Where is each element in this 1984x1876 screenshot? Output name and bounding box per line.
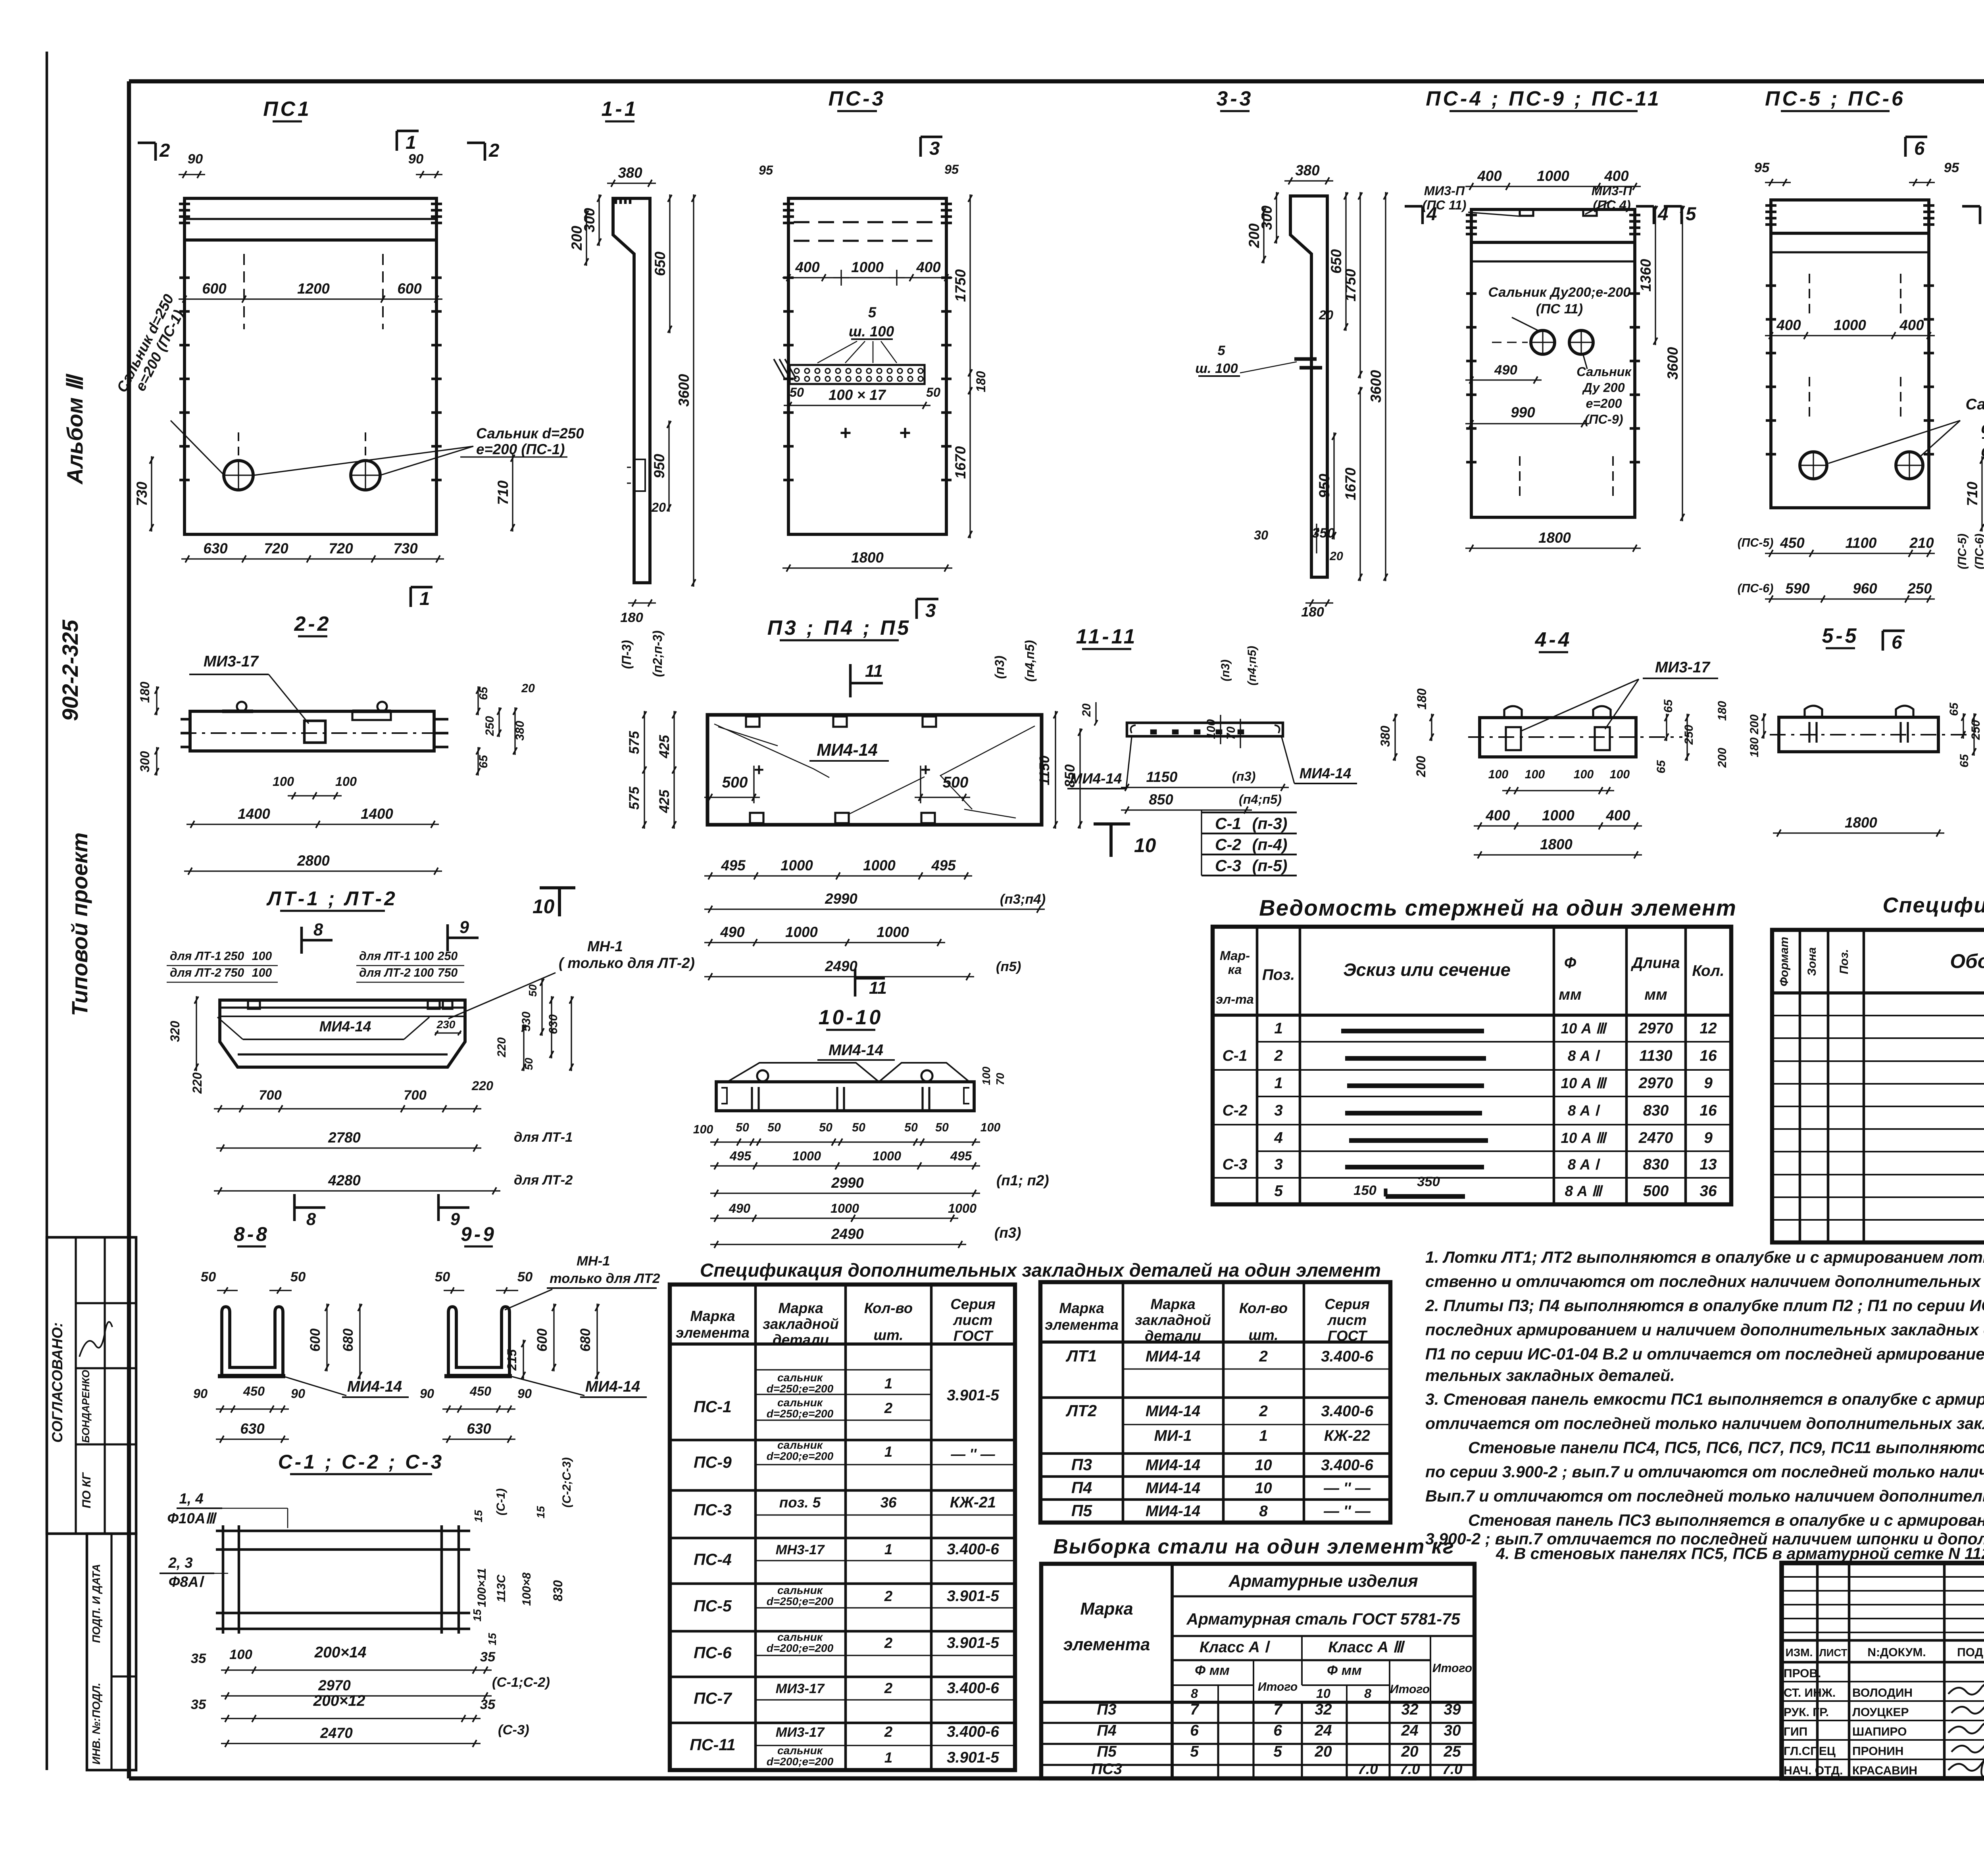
svg-text:400: 400 — [1477, 168, 1502, 184]
svg-text:(ПС-6): (ПС-6) — [1738, 582, 1774, 595]
svg-text:400: 400 — [1604, 168, 1629, 184]
svg-text:200×12: 200×12 — [313, 1692, 365, 1709]
svg-text:1: 1 — [884, 1541, 892, 1557]
svg-text:6: 6 — [1273, 1722, 1282, 1739]
svg-text:100×11: 100×11 — [475, 1568, 488, 1607]
svg-text:24: 24 — [1401, 1722, 1418, 1739]
svg-text:450: 450 — [1780, 535, 1805, 551]
svg-text:НАЧ. ОТД.: НАЧ. ОТД. — [1784, 1764, 1843, 1777]
svg-text:КРАСАВИН: КРАСАВИН — [1852, 1764, 1917, 1777]
svg-text:по серии 3.900-2 ; вып.7 и: по серии 3.900-2 ; вып.7 и отличаются от… — [1425, 1463, 1984, 1481]
svg-text:8 А Ⅰ: 8 А Ⅰ — [1568, 1102, 1600, 1119]
svg-text:1000: 1000 — [1542, 807, 1575, 824]
svg-text:сальник: сальник — [777, 1371, 823, 1384]
svg-text:990: 990 — [1511, 404, 1535, 421]
svg-text:1: 1 — [419, 588, 430, 609]
svg-text:10: 10 — [1255, 1457, 1272, 1474]
svg-text:16: 16 — [1699, 1047, 1717, 1064]
svg-text:490: 490 — [729, 1201, 750, 1215]
svg-text:мм: мм — [1644, 986, 1667, 1003]
svg-text:4-4: 4-4 — [1535, 628, 1572, 651]
svg-text:5: 5 — [868, 304, 877, 321]
svg-text:6: 6 — [1190, 1722, 1199, 1739]
svg-text:для ЛТ-2: для ЛТ-2 — [359, 966, 411, 979]
svg-text:2: 2 — [884, 1724, 893, 1740]
svg-text:1: 1 — [884, 1749, 892, 1766]
svg-text:Кол-во: Кол-во — [864, 1300, 913, 1316]
svg-text:РУК. ГР.: РУК. ГР. — [1784, 1706, 1829, 1719]
svg-text:ПС-5 ; ПС-6: ПС-5 ; ПС-6 — [1765, 87, 1905, 110]
svg-text:Марка: Марка — [1150, 1296, 1195, 1312]
svg-text:1100: 1100 — [1846, 535, 1877, 551]
svg-text:П4: П4 — [1097, 1722, 1117, 1739]
svg-text:элемента: элемента — [1063, 1635, 1150, 1654]
svg-text:сальник: сальник — [777, 1631, 823, 1643]
svg-text:650: 650 — [652, 252, 668, 276]
svg-text:ИНВ. №:ПОДЛ.: ИНВ. №:ПОДЛ. — [90, 1683, 102, 1765]
svg-text:ЛИСТ: ЛИСТ — [1819, 1647, 1848, 1659]
svg-text:50: 50 — [790, 385, 804, 399]
svg-text:ПОДП. И ДАТА: ПОДП. И ДАТА — [90, 1564, 102, 1643]
svg-text:ГОСТ: ГОСТ — [1328, 1328, 1368, 1344]
svg-text:СТ. ИНЖ.: СТ. ИНЖ. — [1784, 1686, 1836, 1699]
svg-text:элемента: элемента — [1045, 1317, 1119, 1333]
svg-text:последних армированием и на: последних армированием и наличием дополн… — [1425, 1321, 1984, 1339]
svg-text:для ЛТ-1: для ЛТ-1 — [170, 950, 221, 963]
svg-text:(С-1;С-2): (С-1;С-2) — [492, 1675, 550, 1690]
svg-text:ЛТ-1 ; ЛТ-2: ЛТ-1 ; ЛТ-2 — [266, 887, 397, 910]
svg-text:3: 3 — [1274, 1102, 1283, 1119]
svg-text:220: 220 — [495, 1037, 508, 1058]
svg-text:Кол.: Кол. — [1692, 962, 1724, 979]
svg-text:950: 950 — [651, 454, 667, 478]
svg-text:МИ4-14: МИ4-14 — [1070, 770, 1122, 787]
svg-text:20: 20 — [1319, 308, 1333, 322]
svg-text:8 А Ⅰ: 8 А Ⅰ — [1568, 1156, 1600, 1173]
svg-text:1800: 1800 — [1540, 836, 1573, 853]
svg-text:Обозначение: Обозначение — [1950, 950, 1984, 972]
svg-text:50: 50 — [852, 1121, 865, 1134]
svg-text:е=200 (ПС-1): е=200 (ПС-1) — [476, 441, 565, 457]
svg-text:1000: 1000 — [792, 1149, 821, 1163]
svg-text:113С: 113С — [495, 1574, 508, 1602]
svg-text:2990: 2990 — [831, 1175, 864, 1191]
svg-text:С-1: С-1 — [1223, 1047, 1248, 1064]
svg-text:850: 850 — [1149, 791, 1173, 808]
svg-text:1000: 1000 — [781, 857, 813, 874]
svg-text:сальник: сальник — [777, 1396, 823, 1409]
svg-text:200: 200 — [1414, 756, 1428, 778]
svg-text:1750: 1750 — [952, 269, 969, 302]
svg-text:2970: 2970 — [1638, 1075, 1673, 1092]
svg-text:+: + — [839, 422, 851, 444]
svg-text:только для ЛТ2: только для ЛТ2 — [550, 1271, 660, 1286]
svg-text:180: 180 — [1415, 688, 1429, 710]
svg-text:20: 20 — [651, 500, 666, 515]
svg-text:3.400-6: 3.400-6 — [1321, 1348, 1373, 1365]
svg-text:7.0: 7.0 — [1400, 1761, 1420, 1777]
svg-text:4: 4 — [1274, 1129, 1283, 1146]
svg-text:7.0: 7.0 — [1357, 1761, 1378, 1777]
svg-text:Типовой проект: Типовой проект — [67, 832, 92, 1016]
svg-text:9-9: 9-9 — [461, 1223, 496, 1245]
svg-text:ка: ка — [1228, 962, 1242, 977]
svg-text:закладной: закладной — [763, 1316, 839, 1332]
svg-text:100 × 17: 100 × 17 — [829, 387, 886, 403]
svg-text:630: 630 — [467, 1421, 491, 1437]
svg-text:П3: П3 — [1097, 1701, 1117, 1718]
svg-text:50: 50 — [736, 1121, 749, 1134]
svg-text:Ф мм: Ф мм — [1195, 1663, 1230, 1678]
svg-text:2490: 2490 — [831, 1226, 864, 1242]
svg-text:ЛТ2: ЛТ2 — [1065, 1402, 1097, 1420]
svg-text:90: 90 — [291, 1386, 305, 1401]
svg-text:(С-2;С-3): (С-2;С-3) — [560, 1457, 573, 1508]
svg-text:3.901-5: 3.901-5 — [947, 1634, 1000, 1651]
svg-text:2: 2 — [1259, 1403, 1268, 1420]
svg-text:50: 50 — [527, 984, 539, 997]
svg-text:100: 100 — [414, 966, 434, 979]
svg-text:d=200;е=200: d=200;е=200 — [767, 1450, 834, 1462]
svg-text:3600: 3600 — [1368, 370, 1384, 403]
svg-text:90: 90 — [517, 1386, 532, 1401]
svg-text:1800: 1800 — [1845, 814, 1877, 831]
svg-text:10-10: 10-10 — [819, 1006, 883, 1029]
svg-text:1000: 1000 — [877, 924, 909, 940]
svg-text:МИ4-14: МИ4-14 — [829, 1042, 883, 1059]
svg-text:50: 50 — [435, 1269, 450, 1285]
svg-text:500: 500 — [943, 774, 969, 791]
svg-text:(ПС 11): (ПС 11) — [1536, 301, 1583, 317]
svg-text:20: 20 — [1401, 1743, 1419, 1760]
svg-text:3.400-6: 3.400-6 — [1321, 1403, 1373, 1420]
svg-text:для ЛТ-2: для ЛТ-2 — [170, 966, 221, 979]
svg-text:30: 30 — [1444, 1722, 1461, 1739]
svg-text:1800: 1800 — [1538, 530, 1571, 546]
svg-text:эл-та: эл-та — [1216, 992, 1254, 1006]
svg-text:65: 65 — [1958, 754, 1971, 768]
svg-text:8: 8 — [1364, 1686, 1371, 1701]
svg-text:МИ4-14: МИ4-14 — [1146, 1457, 1200, 1474]
svg-text:100: 100 — [273, 774, 294, 789]
svg-text:3: 3 — [1274, 1156, 1283, 1173]
svg-text:ПС-4: ПС-4 — [694, 1550, 732, 1569]
svg-text:Ф8АⅠ: Ф8АⅠ — [169, 1574, 205, 1590]
svg-text:320: 320 — [168, 1021, 182, 1042]
svg-text:е=200: е=200 — [1586, 396, 1622, 411]
svg-text:180: 180 — [620, 610, 643, 625]
svg-text:2490: 2490 — [825, 958, 857, 974]
svg-text:ПОДП.: ПОДП. — [1957, 1646, 1984, 1659]
svg-text:13: 13 — [1699, 1156, 1717, 1173]
svg-text:3.400-6: 3.400-6 — [947, 1723, 999, 1740]
svg-text:830: 830 — [1643, 1102, 1669, 1119]
svg-text:35: 35 — [191, 1651, 206, 1666]
svg-text:7.0: 7.0 — [1442, 1761, 1463, 1777]
svg-text:2: 2 — [884, 1588, 893, 1604]
svg-text:100: 100 — [693, 1123, 713, 1136]
svg-text:2: 2 — [1274, 1047, 1283, 1064]
svg-text:730: 730 — [393, 540, 418, 557]
svg-text:(п3): (п3) — [992, 656, 1007, 679]
svg-text:Арматурная сталь ГОСТ 5781-75: Арматурная сталь ГОСТ 5781-75 — [1186, 1610, 1461, 1628]
svg-text:Класс А Ⅰ: Класс А Ⅰ — [1200, 1639, 1271, 1656]
svg-text:32: 32 — [1401, 1701, 1419, 1718]
svg-text:90: 90 — [188, 152, 203, 167]
svg-text:90: 90 — [408, 152, 423, 167]
svg-text:1-1: 1-1 — [602, 97, 638, 120]
svg-text:50: 50 — [201, 1269, 216, 1285]
svg-text:d=250;е=200: d=250;е=200 — [767, 1407, 834, 1420]
svg-text:400: 400 — [1605, 807, 1630, 824]
svg-text:100×8: 100×8 — [520, 1573, 533, 1606]
svg-text:d=200;е=200: d=200;е=200 — [767, 1642, 834, 1654]
svg-text:— '' —: — '' — — [1323, 1503, 1371, 1520]
svg-text:Итого: Итого — [1390, 1683, 1430, 1696]
svg-text:d=250;е=200: d=250;е=200 — [767, 1595, 834, 1607]
svg-text:Ф10АⅢ: Ф10АⅢ — [167, 1510, 217, 1527]
svg-text:590: 590 — [1785, 580, 1810, 597]
svg-text:БОНДАРЕНКО: БОНДАРЕНКО — [80, 1370, 92, 1443]
svg-text:ШАПИРО: ШАПИРО — [1852, 1725, 1907, 1738]
svg-text:Сальник Ду200;е-200: Сальник Ду200;е-200 — [1488, 285, 1630, 300]
svg-text:830: 830 — [1643, 1156, 1669, 1173]
svg-text:630: 630 — [547, 1014, 560, 1034]
svg-text:9: 9 — [1704, 1075, 1713, 1092]
svg-text:Ф мм: Ф мм — [1327, 1663, 1362, 1678]
svg-text:700: 700 — [259, 1088, 282, 1103]
svg-text:600: 600 — [308, 1328, 323, 1352]
svg-text:450: 450 — [243, 1384, 265, 1398]
svg-text:630: 630 — [203, 540, 228, 557]
svg-text:1400: 1400 — [361, 806, 393, 822]
svg-text:С-2: С-2 — [1223, 1102, 1248, 1119]
svg-text:960: 960 — [1853, 580, 1877, 597]
svg-text:2800: 2800 — [297, 853, 330, 869]
svg-text:95: 95 — [944, 162, 959, 177]
svg-text:Стеновые панели ПС4, ПС5, ПС: Стеновые панели ПС4, ПС5, ПС6, ПС7, ПС9,… — [1468, 1438, 1984, 1457]
svg-text:1: 1 — [884, 1375, 892, 1392]
svg-text:8 А Ⅲ: 8 А Ⅲ — [1565, 1183, 1603, 1199]
svg-text:380: 380 — [1295, 162, 1320, 179]
svg-text:(п3): (п3) — [1219, 660, 1232, 682]
svg-text:Сальники е=200: Сальники е=200 — [1965, 396, 1984, 413]
svg-text:— '' —: — '' — — [1323, 1480, 1371, 1497]
svg-text:100: 100 — [980, 1066, 992, 1085]
svg-text:ПС-6: ПС-6 — [694, 1644, 732, 1662]
svg-text:С-2: С-2 — [1215, 835, 1241, 854]
svg-text:КЖ-21: КЖ-21 — [950, 1494, 996, 1511]
svg-text:ПС-9: ПС-9 — [694, 1453, 732, 1471]
svg-text:250: 250 — [1682, 725, 1696, 745]
svg-text:2: 2 — [884, 1635, 893, 1651]
svg-text:С-3: С-3 — [1215, 856, 1241, 875]
svg-text:400: 400 — [1899, 317, 1924, 333]
svg-text:элемента: элемента — [676, 1325, 750, 1341]
svg-text:МИ4-14: МИ4-14 — [1146, 1480, 1200, 1497]
svg-text:250: 250 — [1907, 580, 1932, 597]
svg-text:100: 100 — [335, 774, 357, 789]
svg-text:ш. 100: ш. 100 — [1195, 361, 1238, 376]
svg-text:200×14: 200×14 — [314, 1644, 367, 1661]
svg-text:+: + — [920, 760, 930, 780]
svg-text:Альбом Ⅲ: Альбом Ⅲ — [62, 373, 87, 485]
svg-text:680: 680 — [340, 1328, 356, 1352]
svg-text:(С-1): (С-1) — [494, 1488, 508, 1515]
svg-text:3. Стеновая панель емкости: 3. Стеновая панель емкости ПС1 выполняет… — [1425, 1390, 1984, 1408]
svg-text:поз. 5: поз. 5 — [779, 1494, 821, 1511]
svg-text:3.400-6: 3.400-6 — [947, 1541, 999, 1558]
svg-text:МН-1: МН-1 — [577, 1254, 610, 1269]
svg-text:65: 65 — [477, 686, 490, 700]
svg-text:— '' —: — '' — — [950, 1446, 996, 1462]
svg-text:495: 495 — [950, 1149, 972, 1163]
svg-text:Спецификация марок арматурны: Спецификация марок арматурных изделий — [1883, 893, 1984, 917]
svg-text:1000: 1000 — [863, 857, 896, 874]
svg-text:2470: 2470 — [320, 1725, 353, 1741]
svg-text:5: 5 — [1274, 1183, 1283, 1200]
svg-text:710: 710 — [1964, 482, 1980, 506]
svg-text:100: 100 — [252, 966, 272, 979]
svg-text:Формат: Формат — [1778, 937, 1791, 986]
svg-text:10 А Ⅲ: 10 А Ⅲ — [1561, 1075, 1607, 1091]
svg-text:2: 2 — [884, 1680, 893, 1696]
svg-text:5-5: 5-5 — [1822, 624, 1859, 647]
svg-text:24: 24 — [1314, 1722, 1332, 1739]
svg-text:575: 575 — [627, 786, 642, 810]
svg-text:1400: 1400 — [238, 806, 270, 822]
svg-text:Марка: Марка — [778, 1300, 823, 1316]
svg-text:12: 12 — [1699, 1020, 1717, 1037]
svg-text:680: 680 — [578, 1328, 593, 1352]
svg-text:(ПС-5): (ПС-5) — [1956, 534, 1969, 569]
svg-text:4280: 4280 — [328, 1172, 361, 1189]
svg-text:КЖ-22: КЖ-22 — [1324, 1427, 1371, 1444]
svg-text:10: 10 — [1255, 1480, 1272, 1497]
svg-text:2: 2 — [488, 140, 499, 161]
svg-text:39: 39 — [1444, 1701, 1461, 1718]
svg-text:2780: 2780 — [328, 1129, 361, 1146]
svg-text:3600: 3600 — [1665, 347, 1681, 380]
svg-text:6: 6 — [1914, 138, 1925, 159]
svg-text:П4: П4 — [1071, 1479, 1092, 1497]
svg-text:ПС-5: ПС-5 — [694, 1597, 732, 1615]
svg-text:4. В стеновых панелях ПС5,: 4. В стеновых панелях ПС5, ПСБ в арматур… — [1496, 1544, 1984, 1563]
svg-text:Вып.7 и отличаются от посл: Вып.7 и отличаются от последней только н… — [1425, 1487, 1984, 1505]
svg-text:600: 600 — [202, 280, 227, 297]
svg-text:20: 20 — [1329, 550, 1343, 563]
svg-text:3-3: 3-3 — [1217, 87, 1253, 110]
svg-text:5: 5 — [1273, 1743, 1282, 1760]
svg-text:Эскиз или сечение: Эскиз или сечение — [1343, 960, 1511, 980]
svg-text:65: 65 — [1947, 702, 1961, 716]
svg-text:Сальник d=250: Сальник d=250 — [476, 425, 584, 442]
svg-text:65: 65 — [1655, 760, 1668, 774]
svg-text:(п4,п5): (п4,п5) — [1023, 640, 1037, 682]
svg-text:ПС-11: ПС-11 — [690, 1736, 735, 1754]
svg-text:180: 180 — [138, 682, 152, 703]
svg-text:95: 95 — [1754, 160, 1770, 175]
svg-text:МИ4-14: МИ4-14 — [585, 1378, 640, 1395]
svg-text:700: 700 — [404, 1088, 427, 1103]
svg-text:1750: 1750 — [1342, 269, 1359, 301]
svg-text:100: 100 — [1205, 719, 1218, 739]
svg-text:250: 250 — [483, 716, 496, 736]
svg-text:d=250 (ПС-5): d=250 (ПС-5) — [1981, 420, 1984, 437]
svg-text:(п-3): (п-3) — [1252, 814, 1288, 833]
svg-text:1150: 1150 — [1146, 769, 1178, 785]
svg-text:15: 15 — [471, 1609, 483, 1622]
svg-text:9: 9 — [1704, 1129, 1713, 1146]
svg-text:3.901-5: 3.901-5 — [947, 1387, 1000, 1404]
svg-text:(п5): (п5) — [996, 959, 1021, 974]
svg-text:11: 11 — [869, 979, 887, 998]
svg-text:ПС-3: ПС-3 — [694, 1501, 732, 1519]
svg-text:2990: 2990 — [825, 891, 857, 907]
svg-text:ВОЛОДИН: ВОЛОДИН — [1852, 1686, 1913, 1699]
svg-text:100: 100 — [1488, 768, 1509, 781]
svg-text:380: 380 — [513, 721, 527, 741]
svg-text:95: 95 — [759, 163, 773, 177]
svg-text:1: 1 — [884, 1444, 892, 1460]
svg-text:3.400-6: 3.400-6 — [1321, 1457, 1373, 1474]
svg-text:830: 830 — [551, 1580, 565, 1601]
svg-text:Сальник: Сальник — [1576, 365, 1632, 379]
svg-text:d=250;е=200: d=250;е=200 — [767, 1383, 834, 1395]
svg-text:530: 530 — [520, 1012, 533, 1031]
svg-text:10: 10 — [533, 895, 555, 918]
svg-text:(п3): (п3) — [994, 1225, 1021, 1241]
svg-text:2-2: 2-2 — [294, 612, 331, 635]
svg-text:100: 100 — [414, 950, 434, 963]
svg-text:9: 9 — [459, 918, 469, 937]
svg-text:3600: 3600 — [676, 374, 692, 407]
svg-text:400: 400 — [1776, 317, 1801, 333]
svg-text:50: 50 — [517, 1269, 533, 1285]
svg-text:15: 15 — [486, 1633, 498, 1646]
svg-text:380: 380 — [1378, 726, 1392, 747]
svg-text:Итого: Итого — [1258, 1680, 1298, 1694]
svg-text:ПС-3: ПС-3 — [829, 87, 886, 110]
svg-text:МИ3-П: МИ3-П — [1592, 184, 1632, 198]
svg-text:3.901-5: 3.901-5 — [947, 1588, 1000, 1605]
svg-text:100: 100 — [252, 950, 272, 963]
svg-text:(п2;п-3): (п2;п-3) — [650, 630, 665, 677]
svg-text:100: 100 — [1610, 768, 1630, 781]
svg-text:лист: лист — [953, 1312, 992, 1328]
svg-text:(ПС 4): (ПС 4) — [1593, 198, 1630, 212]
svg-text:710: 710 — [495, 480, 511, 505]
svg-text:500: 500 — [722, 774, 748, 791]
svg-text:Марка: Марка — [1059, 1300, 1104, 1316]
svg-text:(п-4): (п-4) — [1252, 835, 1288, 854]
svg-text:МИ3-17: МИ3-17 — [204, 653, 260, 670]
svg-text:1000: 1000 — [851, 259, 884, 275]
svg-text:1: 1 — [1274, 1075, 1283, 1092]
svg-text:(ПС-5): (ПС-5) — [1738, 536, 1774, 549]
svg-text:(п-5): (п-5) — [1252, 856, 1288, 875]
svg-text:8: 8 — [1191, 1686, 1198, 1701]
svg-text:1670: 1670 — [952, 446, 969, 479]
svg-text:С-1 ; С-2 ; С-3: С-1 ; С-2 ; С-3 — [278, 1451, 444, 1473]
svg-text:ПС-4 ; ПС-9 ; ПС-11: ПС-4 ; ПС-9 ; ПС-11 — [1426, 87, 1661, 110]
svg-text:8: 8 — [1259, 1503, 1268, 1520]
svg-text:50: 50 — [904, 1121, 918, 1134]
svg-text:720: 720 — [329, 540, 353, 557]
svg-text:250: 250 — [437, 950, 458, 963]
svg-text:425: 425 — [657, 735, 672, 758]
svg-text:5: 5 — [1217, 343, 1225, 358]
